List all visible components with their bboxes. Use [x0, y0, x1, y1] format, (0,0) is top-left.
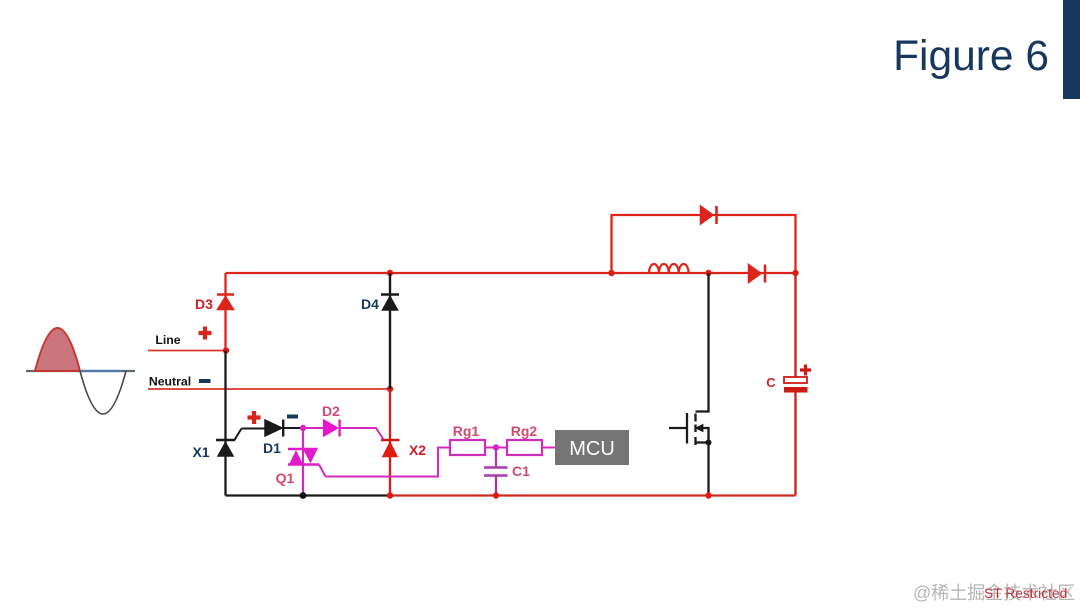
wire Rg2 to MCU: [542, 447, 555, 449]
wire cap branch lower: [794, 393, 796, 496]
svg-text:Rg2: Rg2: [511, 423, 538, 439]
svg-text:Q1: Q1: [276, 470, 295, 486]
svg-text:MCU: MCU: [569, 438, 615, 460]
wire D4 branch black: [389, 273, 391, 389]
minus sign at Neutral: [199, 379, 211, 383]
body lead with arrow: [701, 428, 709, 443]
mosfet Q (black): [669, 273, 709, 445]
ST Restricted: [984, 586, 1067, 601]
diode boost (right): [749, 265, 766, 283]
source lead: [696, 441, 709, 443]
svg-text:C: C: [766, 375, 776, 390]
gate wire X1 to D1 (black): [242, 428, 267, 430]
wire top bus: [226, 272, 796, 274]
wire Q1 gate to Rg1 (pink): [326, 448, 451, 477]
svg-text:D2: D2: [322, 403, 340, 419]
plus sign at D1 anode: [248, 411, 261, 424]
svg-text:D4: D4: [361, 296, 379, 312]
node gate junction (pink): [300, 425, 306, 431]
svg-text:Neutral: Neutral: [149, 375, 191, 389]
sine wave positive half: [35, 328, 80, 371]
diode D3: [217, 295, 234, 310]
wire left column red (through D3): [224, 273, 226, 351]
diode D2: [324, 420, 340, 437]
watermark: [913, 579, 1075, 605]
wire bottom bus red: [390, 494, 796, 496]
header bar: [1063, 0, 1080, 99]
svg-text:X2: X2: [409, 442, 426, 458]
node Neutral junction: [387, 386, 393, 392]
node C1 bottom junction: [493, 492, 499, 498]
resistor Rg2: [507, 440, 542, 455]
wire cap branch upper: [794, 273, 796, 377]
node drain junction: [705, 270, 711, 276]
minus sign at D1 cathode: [287, 415, 298, 419]
plus sign at C: [800, 365, 811, 376]
wire Line: [148, 350, 226, 352]
gate lead: [669, 427, 687, 429]
MCU box: [555, 430, 629, 465]
wire D2 to X2 gate (pink): [340, 428, 384, 440]
wire X2 branch red: [389, 389, 391, 496]
node Line junction: [223, 347, 229, 353]
inductor L: [649, 264, 689, 273]
node loop right junction: [792, 270, 798, 276]
plus sign at Line: [199, 327, 212, 340]
drain lead: [696, 273, 709, 412]
channel segments: [694, 414, 696, 446]
wire Rg1 to Rg2: [485, 447, 507, 449]
svg-text:Rg1: Rg1: [453, 423, 480, 439]
svg-text:Line: Line: [155, 333, 180, 347]
node D4 top junction: [387, 270, 393, 276]
wire source to bus: [707, 443, 709, 496]
gate bar: [686, 413, 688, 444]
wire bottom bus black: [226, 494, 391, 496]
title Figure 6: [893, 33, 1049, 81]
svg-text:D3: D3: [195, 296, 213, 312]
sine wave axis: [26, 370, 135, 372]
node Q1 bottom junction (black): [300, 492, 307, 499]
capacitor C1: [484, 448, 508, 496]
wire left column black (through X1): [224, 351, 226, 496]
wire Q1 branch (pink vertical): [302, 428, 304, 496]
diode bypass (top): [701, 206, 717, 224]
node X2 bottom junction: [387, 492, 393, 498]
wire Neutral: [148, 388, 390, 390]
wire bypass loop: [612, 215, 796, 273]
node body-source: [706, 440, 712, 446]
svg-text:X1: X1: [192, 444, 209, 460]
diode D4: [381, 295, 399, 311]
node Rg junction (pink): [493, 444, 499, 450]
node loop left junction: [608, 270, 614, 276]
triac Q1: [288, 449, 326, 477]
svg-text:D1: D1: [263, 440, 281, 456]
resistor Rg1: [450, 440, 485, 455]
capacitor C: [784, 377, 808, 393]
thyristor X2: [381, 440, 400, 457]
thyristor X1: [216, 429, 242, 457]
svg-text:C1: C1: [512, 463, 530, 479]
wire junction to D2 (pink): [303, 427, 325, 429]
node source bottom junction: [705, 492, 711, 498]
diode D1: [265, 420, 303, 437]
sine wave negative half: [80, 371, 126, 414]
